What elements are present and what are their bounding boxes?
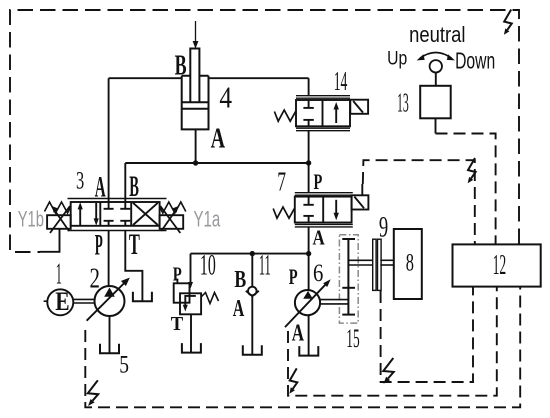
valve 14 blocked port symbols	[308, 100, 310, 108]
gearbox 15 boundary	[339, 235, 358, 323]
pump 2 variable arrow	[87, 278, 130, 321]
pump 6 (variable displacement)	[295, 290, 320, 315]
svg-text:Y1b: Y1b	[18, 207, 44, 232]
wire pump 2 suction line	[109, 316, 111, 353]
wire relief valve 10 P riser	[190, 254, 192, 284]
shaft motor 1 to pump 2	[73, 299, 94, 303]
wire cylinder B port left segment	[109, 77, 182, 79]
shaft coupling 9 to load 8	[380, 260, 394, 265]
svg-text:B: B	[234, 267, 246, 293]
svg-text:1: 1	[56, 257, 62, 291]
lightning electric-signal mark on pump 6 line	[289, 368, 297, 393]
dashed electric boundary: controller 12 to solenoid Y1b	[10, 10, 519, 252]
svg-text:P: P	[314, 169, 323, 194]
svg-text:12: 12	[493, 250, 507, 281]
tank (valve 10 return)	[182, 343, 201, 353]
valve 3 centre blocked ports	[108, 202, 110, 209]
svg-text:T: T	[129, 229, 140, 261]
valve 7 flow arrow (down)	[335, 200, 337, 217]
svg-text:Y1a: Y1a	[194, 207, 221, 232]
svg-text:A: A	[95, 171, 106, 203]
node junction at cylinder A line	[193, 160, 198, 165]
svg-text:P: P	[289, 264, 298, 289]
cylinder 4 load arrow	[193, 21, 199, 49]
lightning electric-signal mark on pump 2 line	[88, 380, 98, 406]
joystick 13 box	[420, 86, 451, 119]
cylinder 4 body	[182, 76, 209, 130]
tank (valve 3 T return)	[133, 292, 152, 302]
wire pilot line y=253.6	[191, 253, 309, 255]
svg-text:E: E	[55, 287, 69, 316]
electric motor 1	[47, 289, 73, 315]
valve 3 (4/3 proportional directional valve)	[68, 199, 167, 231]
svg-text:neutral: neutral	[409, 22, 465, 47]
svg-text:B: B	[175, 50, 187, 81]
wire riser to valve 3 port A	[108, 78, 110, 202]
svg-text:14: 14	[334, 66, 348, 97]
svg-text:2: 2	[90, 263, 100, 295]
valve 7 (2/2 solenoid valve)	[273, 193, 368, 227]
valve 14 spring	[274, 110, 296, 121]
joystick 13 swing arrow	[417, 53, 455, 61]
svg-text:7: 7	[277, 166, 286, 196]
wire cylinder B port right segment	[209, 77, 309, 79]
wire valve 7 solenoid lead	[361, 184, 363, 195]
wire riser to valve 3 port B	[124, 163, 126, 202]
svg-text:4: 4	[219, 80, 232, 114]
dashed electric line: pump 2 control to controller 12	[85, 287, 520, 407]
svg-text:3: 3	[76, 167, 84, 194]
cylinder 4 piston rod	[190, 49, 199, 104]
controller box 12	[453, 244, 541, 286]
cylinder 4 piston	[182, 102, 209, 109]
svg-text:P: P	[173, 264, 182, 286]
valve 14 (2/2 solenoid valve)	[274, 96, 368, 131]
svg-text:T: T	[171, 313, 184, 335]
node junction at pump 6 column	[306, 251, 311, 256]
svg-text:P: P	[95, 229, 103, 261]
valve 14 solenoid	[350, 100, 368, 114]
node junction at check valve 11	[250, 251, 255, 256]
valve 7 spring	[273, 207, 295, 218]
dashed electric line: valve 7 solenoid to controller 12	[363, 160, 475, 244]
joystick 13 lever and knob	[435, 73, 437, 86]
dashed electric line: pump 6 control to controller 12	[288, 287, 497, 396]
tank (valve 11 return)	[243, 345, 262, 355]
valve 3 right proportional solenoid Y1a	[160, 202, 186, 233]
svg-text:A: A	[211, 124, 226, 155]
svg-text:8: 8	[406, 249, 414, 276]
dashed electric line: speed sensor 9 to controller 12	[381, 287, 473, 382]
valve 7 solenoid	[352, 195, 369, 209]
svg-text:Down: Down	[455, 47, 495, 73]
wire valve 7 P port riser	[308, 163, 310, 193]
node junction at valve 14/7 column	[306, 160, 311, 165]
valve 3 right position crossed arrows	[133, 203, 158, 225]
relief valve 10	[174, 279, 219, 315]
check valve 11 (ball and seat)	[246, 287, 259, 297]
svg-text:A: A	[233, 295, 245, 322]
tank (pump 6 suction)	[299, 346, 318, 356]
wire relief valve 10 tank line	[190, 314, 192, 352]
dashed electric line: joystick 13 to controller 12	[436, 134, 496, 245]
valve 14 flow arrow (up)	[335, 106, 337, 124]
wire riser to valve 14 top port	[308, 78, 310, 96]
svg-text:B: B	[129, 171, 139, 203]
svg-text:11: 11	[259, 249, 271, 282]
svg-text:Up: Up	[387, 48, 407, 69]
coupling / speed sensor 9	[373, 239, 381, 290]
pump 2 (variable displacement)	[95, 286, 125, 316]
svg-text:A: A	[313, 226, 326, 250]
shaft gearbox 15 to coupling 9	[348, 260, 373, 265]
load box 8	[394, 229, 422, 299]
lightning electric-signal mark on valve 7 line	[468, 158, 476, 183]
wire check valve 11 riser	[251, 254, 253, 287]
lightning electric-signal mark on sensor line	[383, 358, 393, 384]
wire pump 6 tank line	[308, 315, 310, 356]
svg-text:13: 13	[397, 88, 409, 118]
wire valve 14 bottom port	[308, 131, 310, 163]
wire valve 3 P port to pump 2	[108, 231, 110, 288]
lightning electric-signal mark on top border	[504, 10, 512, 35]
svg-text:15: 15	[346, 323, 359, 353]
shaft pump 6 to gearbox 15	[320, 300, 348, 304]
svg-text:10: 10	[200, 249, 216, 281]
valve 3 left position arrows	[79, 206, 81, 226]
wire pump 6 P riser	[308, 254, 310, 290]
wire valve 3 T port to tank	[125, 231, 142, 302]
wire horizontal A-line	[125, 162, 308, 164]
svg-text:9: 9	[379, 212, 388, 244]
tank 5	[100, 344, 119, 354]
wire cylinder A port drop	[195, 129, 197, 163]
pump 6 variable arrow	[285, 279, 331, 327]
wire Y1b solenoid lead	[40, 229, 60, 252]
wire joystick 13 output	[435, 118, 437, 133]
wire valve 7 A port drop	[308, 227, 310, 254]
svg-text:5: 5	[119, 351, 129, 378]
svg-text:A: A	[292, 320, 304, 347]
svg-text:6: 6	[313, 258, 323, 287]
gearbox 15 gear pair	[342, 239, 355, 315]
wire check valve 11 tank line	[251, 296, 253, 355]
valve 3 left proportional solenoid Y1b	[45, 202, 71, 233]
valve 7 blocked port symbols	[308, 197, 310, 205]
